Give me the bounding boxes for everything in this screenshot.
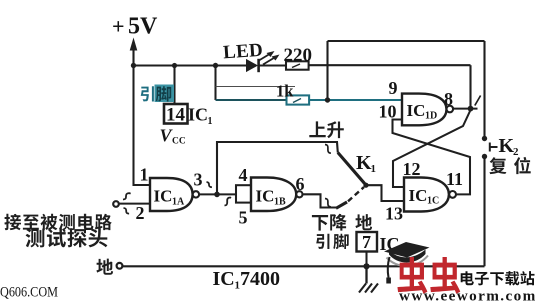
svg-text:1B: 1B xyxy=(274,197,286,208)
wire: K2 to ground rail xyxy=(483,157,485,267)
wire: top run to K2 xyxy=(328,40,485,42)
svg-text:1: 1 xyxy=(140,165,149,185)
node: pin 8 junction xyxy=(468,106,474,112)
node: reset net junction xyxy=(325,97,330,102)
wire: IC1A out to node A xyxy=(199,193,236,195)
watermark graduation cap logo xyxy=(384,242,430,284)
wire: +5V to IC1A pin 1 xyxy=(134,66,151,186)
svg-text:IC: IC xyxy=(407,101,426,120)
label 地 引脚 7 IC1 (ground pin note) xyxy=(316,234,349,249)
wire: +5V rail to LED anode xyxy=(134,64,247,66)
svg-text:1D: 1D xyxy=(425,111,437,122)
edge glyph: hook at upper contact xyxy=(325,145,331,154)
IC1B tied-input box xyxy=(236,185,251,202)
svg-text:14: 14 xyxy=(166,105,186,126)
svg-text:5V: 5V xyxy=(128,14,158,40)
node A: pin3 junction xyxy=(214,192,220,198)
switch K1 blade (selected: rising) xyxy=(338,153,366,185)
svg-text:LED: LED xyxy=(222,40,263,64)
svg-text:IC: IC xyxy=(154,187,173,206)
label 复位 (reset) xyxy=(489,157,530,174)
pin 14 box of IC1 xyxy=(164,104,188,124)
IC1C output bubble xyxy=(449,191,456,198)
tick mark near K2 xyxy=(475,96,481,106)
svg-text:1k: 1k xyxy=(276,82,294,101)
edge glyph: hook at lower contact xyxy=(325,199,331,207)
label 地 (ground, pin7 note) xyxy=(355,214,372,230)
pin label: 引脚 (pin) teal annotation xyxy=(141,86,154,101)
svg-text:IC: IC xyxy=(188,105,208,125)
svg-text:Q606.COM: Q606.COM xyxy=(0,285,58,301)
op IC1C NAND gate body xyxy=(404,178,449,212)
switch K2 plunger xyxy=(490,143,498,152)
svg-text:3: 3 xyxy=(194,170,203,190)
svg-text:1A: 1A xyxy=(172,197,185,208)
IC1D output bubble xyxy=(447,106,454,113)
scan artifact line above 1k xyxy=(216,86,296,88)
edge glyph: rising step below node A xyxy=(225,198,232,206)
svg-text:8: 8 xyxy=(444,89,453,109)
IC1A output bubble xyxy=(193,191,199,197)
wire: IC1C pin 11 to IC1D pin 10 xyxy=(393,120,471,195)
wire: rail drop to 1k row xyxy=(214,66,216,101)
label 测试探头 (test probe) xyxy=(26,228,108,247)
resistor 220 xyxy=(286,61,309,69)
wire: node A up and right to K1 upper contact xyxy=(217,142,338,194)
pin 7 box of IC1 xyxy=(357,232,378,252)
svg-text:2: 2 xyxy=(136,203,145,223)
svg-text:5: 5 xyxy=(239,208,248,228)
ground terminal xyxy=(117,263,123,269)
edge glyph: rising step at probe xyxy=(123,193,131,199)
switch K1 blade alternate (dashed to falling) xyxy=(348,187,364,201)
wire: drop to pin 8 node xyxy=(469,65,471,108)
wire: pin7 box to ground rail xyxy=(365,252,367,266)
wire: IC1B out to K1 lower contact xyxy=(303,194,337,207)
svg-text:1C: 1C xyxy=(427,196,439,207)
label 下降 (falling) xyxy=(312,214,347,231)
LED indicator xyxy=(246,51,280,72)
edge glyph: falling step at pin 3 xyxy=(207,182,212,187)
node: +5V at probe pull-up branch xyxy=(131,63,136,68)
wire: R220 to latch output column xyxy=(309,64,471,66)
wire: pin 8 to IC1C pin 12 xyxy=(393,110,471,187)
svg-text:7: 7 xyxy=(362,232,371,252)
svg-text:13: 13 xyxy=(385,204,403,224)
svg-text:220: 220 xyxy=(284,45,313,66)
node: 1k pull-up branch xyxy=(213,63,218,68)
svg-text:www.eeworm.com: www.eeworm.com xyxy=(399,288,535,302)
wire: 1k to IC1D pin 9 (teal) xyxy=(309,99,402,101)
label 上升 (rising) xyxy=(309,121,344,138)
svg-text:2: 2 xyxy=(513,146,519,158)
wire: junction up over rail xyxy=(326,41,328,100)
probe input terminal xyxy=(113,201,119,207)
svg-text:7400: 7400 xyxy=(240,268,280,290)
switch K1 lower contact stub xyxy=(336,202,347,208)
node: K1 pole xyxy=(363,183,368,188)
svg-text:IC: IC xyxy=(256,187,275,206)
wire: rail drop to IC1 pin 14 box xyxy=(173,66,175,104)
svg-text:CC: CC xyxy=(172,137,186,147)
watermark 电子下载站 xyxy=(461,271,535,285)
svg-text:9: 9 xyxy=(389,78,398,98)
op IC1B NAND gate body xyxy=(251,178,296,212)
ground symbol xyxy=(359,266,378,292)
svg-text:IC: IC xyxy=(409,186,428,205)
label 接至被测电路 (connect to circuit under test) xyxy=(4,214,111,231)
svg-text:+: + xyxy=(112,14,125,39)
switch K2 bottom contact xyxy=(482,154,487,159)
op IC1D NAND gate body xyxy=(402,94,447,126)
node: ground junction xyxy=(363,263,369,269)
wire: pin 8 output xyxy=(453,108,477,110)
svg-text:1: 1 xyxy=(371,163,377,175)
node: Vcc pin-14 branch xyxy=(172,63,177,68)
svg-text:6: 6 xyxy=(296,174,305,194)
wire: 1k row left xyxy=(216,99,287,101)
switch K2 top contact xyxy=(482,136,487,141)
wire: probe to IC1A pin 2 xyxy=(119,203,151,205)
svg-text:12: 12 xyxy=(403,159,421,179)
svg-text:11: 11 xyxy=(446,169,463,189)
wire: LED cathode to R 220 xyxy=(259,64,286,66)
wire: ground rail xyxy=(123,265,485,267)
wire: drop to K2 top contact xyxy=(483,41,485,139)
resistor 1k xyxy=(287,95,310,104)
edge glyph: falling step at probe xyxy=(124,208,130,214)
op IC1A NAND gate body xyxy=(150,178,193,211)
label 地 (ground terminal) xyxy=(96,259,113,275)
wire: K1 pole to IC1C pin 13 xyxy=(366,185,405,201)
+5V arrow terminal xyxy=(130,38,138,66)
svg-text:1: 1 xyxy=(208,116,213,127)
svg-text:IC: IC xyxy=(213,268,235,290)
IC1B output bubble xyxy=(296,191,302,197)
watermark 虫虫 logo text xyxy=(397,257,460,294)
svg-text:4: 4 xyxy=(239,165,248,185)
